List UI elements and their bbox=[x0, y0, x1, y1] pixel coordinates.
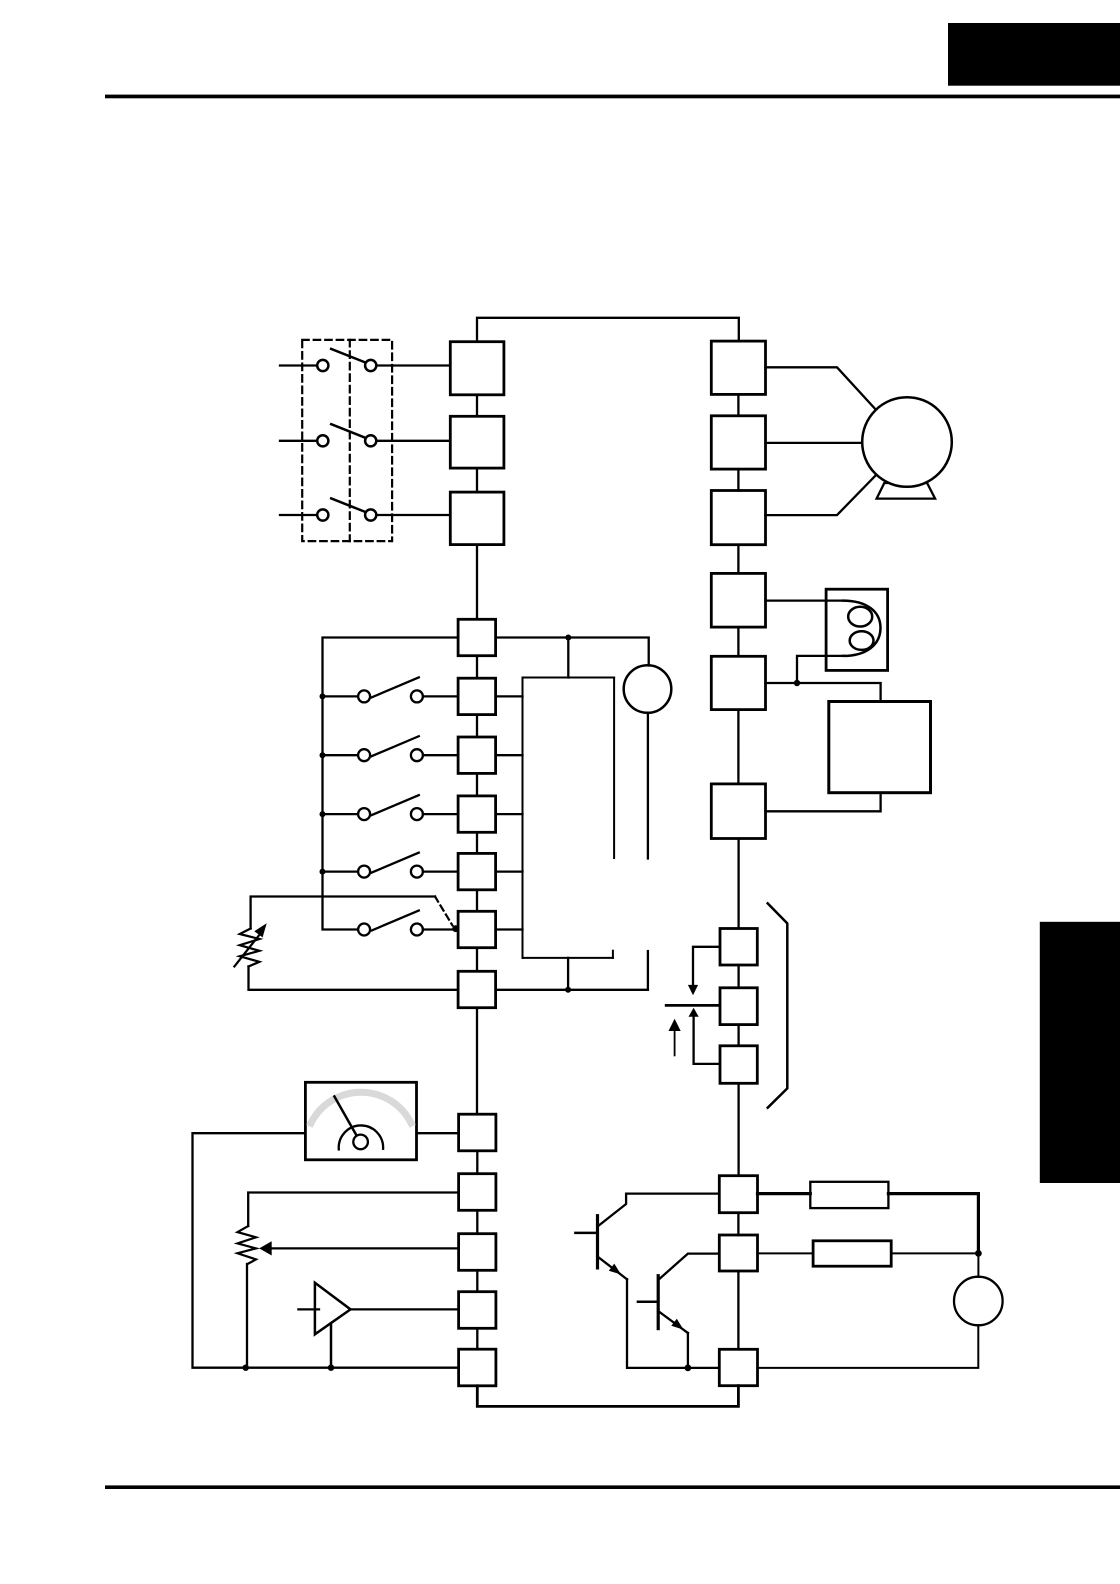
terminal 12 bbox=[719, 1235, 757, 1271]
motor M bbox=[862, 397, 952, 487]
terminal O bbox=[459, 1174, 496, 1211]
wire AM-L2 bbox=[476, 1328, 478, 1349]
terminal AM bbox=[459, 1292, 496, 1329]
wire bottom link bbox=[477, 1386, 738, 1407]
bracket bbox=[768, 903, 788, 1107]
node bus1 bbox=[320, 693, 326, 699]
wire +1 to + bbox=[737, 627, 739, 656]
terminal L3 bbox=[450, 492, 504, 544]
wire AL1-AL2 bbox=[737, 1025, 739, 1046]
wire E to CM2 bbox=[688, 1367, 719, 1369]
terminal H bbox=[459, 1114, 496, 1151]
terminal 4 bbox=[458, 853, 496, 889]
input bus bbox=[323, 638, 459, 930]
switch S3 bbox=[280, 498, 450, 520]
relay contact arrow up bbox=[689, 1008, 699, 1017]
load R1 bbox=[810, 1182, 888, 1208]
wire braking unit to - bbox=[766, 793, 881, 812]
relay contact bar bbox=[666, 1004, 719, 1007]
motor base bbox=[877, 483, 936, 499]
wire V to motor bbox=[766, 442, 867, 444]
wire 2-3 bbox=[476, 773, 478, 796]
node bus2 bbox=[320, 752, 326, 758]
wire dashed link bbox=[435, 897, 453, 926]
wire 11 to load R1 bbox=[758, 1192, 811, 1195]
wire L1-L2 bbox=[476, 395, 478, 417]
wire L row bottom bbox=[250, 989, 458, 991]
wire AL0-AL1 bbox=[737, 965, 739, 988]
state arrow bbox=[669, 1019, 681, 1031]
node G2 bbox=[328, 1365, 334, 1371]
potentiometer VR1 bbox=[234, 897, 435, 990]
terminal AL1 bbox=[720, 988, 757, 1025]
node 5 bbox=[452, 925, 459, 932]
node E bbox=[685, 1365, 692, 1372]
wire +1 to choke bbox=[766, 599, 844, 601]
terminal 2 bbox=[458, 737, 496, 773]
header rule bbox=[105, 95, 1120, 99]
wire 4-block bbox=[496, 870, 523, 872]
wire 5-L bbox=[476, 948, 478, 972]
wire U to motor bbox=[766, 367, 879, 412]
wire + to braking unit bbox=[766, 683, 881, 702]
wire meter left loop bbox=[193, 1133, 459, 1368]
wire P24-1 bbox=[476, 656, 478, 679]
header black tab bbox=[948, 23, 1120, 86]
terminal 3 bbox=[458, 796, 496, 832]
wire choke return bbox=[797, 656, 843, 683]
wire 12 to load R2 bbox=[758, 1252, 814, 1254]
terminal Lc bbox=[458, 971, 496, 1007]
wire top link bbox=[477, 318, 739, 342]
node bus4 bbox=[320, 869, 326, 875]
switch K1 bbox=[323, 677, 459, 702]
meter FM bbox=[624, 665, 672, 713]
switch K4 bbox=[323, 853, 459, 878]
choke coil bbox=[843, 601, 881, 656]
wire AL2 down bbox=[737, 1083, 739, 1175]
terminal AL0 bbox=[720, 929, 757, 966]
wire P24 right bbox=[496, 638, 649, 666]
wire L3 down bbox=[476, 545, 478, 620]
switch K3 bbox=[323, 795, 459, 820]
wire W to motor bbox=[766, 473, 879, 515]
terminal 1 bbox=[458, 678, 496, 714]
terminal V bbox=[711, 416, 765, 469]
wire PS to CM2 bbox=[758, 1325, 979, 1368]
wire O to pot bbox=[248, 1193, 458, 1227]
switch K2 bbox=[323, 736, 459, 761]
wire 1-2 bbox=[476, 715, 478, 737]
wire FM down bbox=[647, 713, 649, 859]
op-amp A1 bbox=[315, 1283, 351, 1335]
wire FM return bbox=[647, 951, 649, 990]
wire pot bottom bbox=[246, 1264, 248, 1368]
wire 1-block bbox=[496, 695, 523, 697]
meter scale bbox=[311, 1092, 411, 1123]
node G1 bbox=[243, 1365, 249, 1371]
terminal + bbox=[711, 656, 765, 709]
wire node to PS bbox=[977, 1253, 979, 1276]
meter box bbox=[305, 1082, 416, 1160]
wire 11-12 bbox=[737, 1213, 739, 1235]
node junction bbox=[794, 680, 800, 686]
terminal - bbox=[711, 784, 765, 839]
wire 3-block bbox=[496, 813, 523, 815]
switch S2 bbox=[280, 424, 450, 446]
wire 2-block bbox=[496, 754, 523, 756]
wire H-O bbox=[476, 1151, 478, 1174]
choke box bbox=[826, 589, 888, 670]
relay contact arrow down bbox=[693, 947, 720, 985]
wire node to block bbox=[567, 638, 569, 678]
meter dial arc bbox=[339, 1125, 383, 1149]
terminal L1 bbox=[450, 342, 504, 395]
node P24 bbox=[565, 635, 571, 641]
footer rule bbox=[105, 1485, 1120, 1489]
terminal 11 bbox=[719, 1176, 757, 1213]
meter needle bbox=[334, 1097, 356, 1136]
terminal W bbox=[711, 491, 765, 545]
terminal U bbox=[711, 341, 765, 394]
node PS bbox=[975, 1250, 982, 1257]
terminal AL2 bbox=[720, 1046, 757, 1084]
op-amp output bbox=[351, 1308, 459, 1310]
wire - to AL0 bbox=[737, 839, 739, 929]
load R2 bbox=[813, 1241, 891, 1266]
transistor Q1 bbox=[575, 1194, 719, 1368]
op-amp ground tap bbox=[330, 1323, 333, 1368]
switch K5 bbox=[358, 911, 458, 936]
wire L2-L3 bbox=[476, 468, 478, 492]
terminal L2 bbox=[450, 416, 504, 468]
wire U-V bbox=[737, 394, 739, 415]
wire R1 to node bbox=[888, 1194, 978, 1254]
terminal OI bbox=[459, 1234, 496, 1271]
wire R2 to node bbox=[891, 1252, 978, 1254]
logic block bbox=[523, 678, 615, 958]
terminal +1 bbox=[711, 573, 765, 627]
power supply PS bbox=[954, 1277, 1003, 1326]
terminal CM2 bbox=[719, 1349, 757, 1385]
wire 4-5 bbox=[476, 890, 478, 912]
switch S1 bbox=[280, 349, 450, 371]
wire 5-block bbox=[496, 928, 523, 930]
potentiometer VR2 bbox=[238, 1226, 257, 1264]
wire V-W bbox=[737, 469, 739, 490]
wiper arrow bbox=[271, 1247, 459, 1249]
wire 12-CM2 bbox=[737, 1271, 739, 1349]
node bus3 bbox=[320, 811, 326, 817]
wire OI-AM bbox=[476, 1270, 478, 1291]
terminal P24 bbox=[458, 619, 496, 655]
meter pivot bbox=[353, 1135, 368, 1150]
terminal 5 bbox=[458, 911, 496, 947]
wire meter to H bbox=[417, 1132, 459, 1134]
wire + to - bbox=[737, 710, 739, 784]
wire 3-4 bbox=[476, 832, 478, 853]
braking unit box bbox=[829, 702, 931, 793]
wire W to +1 bbox=[737, 545, 739, 574]
side black tab bbox=[1040, 922, 1120, 1183]
wire Lc down to H column bbox=[476, 1008, 478, 1114]
transistor Q2 bbox=[638, 1254, 719, 1368]
wire block bottom to L row bbox=[567, 958, 569, 990]
terminal L2c bbox=[459, 1349, 496, 1386]
op-amp input bbox=[298, 1308, 319, 1310]
wire O-OI bbox=[476, 1210, 478, 1233]
node Lrow bbox=[565, 987, 571, 993]
breaker dashed enclosure bbox=[302, 340, 392, 541]
